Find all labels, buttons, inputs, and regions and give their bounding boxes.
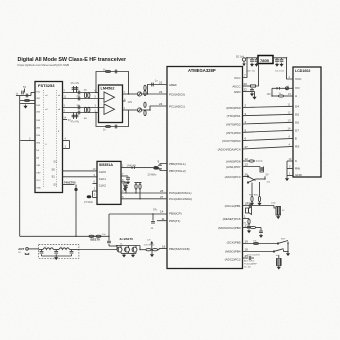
wire PB3 pin17 bbox=[243, 224, 264, 238]
crystal X1 20MHz bbox=[147, 164, 167, 177]
rotary encoder bbox=[243, 173, 271, 206]
wire PD1 to LCD D5 bbox=[243, 114, 294, 115]
op-amp U2A bbox=[104, 92, 115, 103]
wire AVCC pin20 inductor bbox=[243, 65, 259, 97]
IC U6 7805 regulator bbox=[258, 56, 273, 64]
wire PD3 to LCD D7 bbox=[243, 130, 294, 132]
capacitor on ICP bbox=[152, 214, 154, 221]
wire FST pin 2 row bbox=[20, 140, 35, 142]
key dit pin19 bbox=[243, 239, 289, 245]
crystal X2 27MHz bbox=[84, 186, 97, 204]
wire PD0 to LCD D4 bbox=[243, 106, 294, 107]
wire PD2 to LCD D6 bbox=[243, 122, 294, 124]
FST3253 right rows to LM4562 bbox=[63, 89, 105, 113]
power rail 12V input bbox=[236, 56, 246, 67]
wire 7805 out 5V bbox=[273, 58, 293, 79]
IC U5 LCD1602 bbox=[293, 67, 321, 177]
wire SI5351A CLK0 stub bbox=[93, 183, 98, 185]
IC U1 FST3253 bbox=[35, 82, 63, 193]
trimpot R gain A bbox=[137, 92, 141, 96]
junction dots bbox=[95, 92, 96, 93]
wire PB2 pin16 TX bbox=[144, 240, 168, 258]
wire PD7 audio out pin13 bbox=[243, 163, 264, 172]
wire I2C SCL to pin28 bbox=[121, 198, 167, 200]
wire U2A out pin7 bbox=[123, 93, 138, 95]
wire LCD A backlight resistor bbox=[267, 92, 294, 97]
capacitor C 47u+47u bottom bbox=[71, 113, 80, 124]
key dah pin18 bbox=[243, 244, 291, 257]
wire LPF to PA drain bbox=[79, 249, 117, 251]
wire U2B out pin1 bbox=[123, 109, 138, 111]
feedback loop bottom U2B bbox=[96, 110, 129, 132]
gate 74ACT00 bbox=[63, 184, 75, 186]
capacitor C out 7805 bbox=[275, 58, 285, 73]
wire PD6 sidetone pin12 bbox=[243, 157, 264, 162]
op-amp U2B bbox=[104, 104, 115, 115]
title bbox=[18, 57, 127, 67]
resistor pair B bbox=[144, 102, 146, 107]
dc in jack pin25 bbox=[243, 254, 282, 270]
wire GND pin22 bbox=[243, 88, 257, 100]
IC U3 SI5351A bbox=[97, 161, 121, 204]
pin 14 5V stub FST bbox=[63, 119, 68, 121]
wire to PC0 pin23 bbox=[148, 93, 168, 95]
resistor bias pair upper bbox=[84, 93, 86, 98]
wire VCC pin7 bbox=[243, 58, 248, 78]
RX input attenuator network bbox=[16, 85, 36, 102]
ground input network bbox=[23, 105, 27, 109]
capacitor C 47u+47u top bbox=[71, 82, 80, 93]
resistor pair A bbox=[144, 85, 146, 90]
capacitor I2C filter bbox=[122, 182, 128, 194]
antenna ANT bbox=[18, 247, 38, 255]
IC U4 ATMEGA328P bbox=[167, 67, 243, 269]
wire PC4 to LCD RS bbox=[243, 146, 294, 149]
trimpot R gain B bbox=[137, 108, 141, 112]
node left rail bbox=[19, 96, 21, 237]
wire PD5 T1 pin11 bbox=[157, 220, 167, 222]
feedback loop top U2A bbox=[96, 68, 129, 94]
wire to AREF pin21 bbox=[148, 85, 168, 95]
wire PB0 ICP pin14 bbox=[109, 213, 167, 215]
wire to PC1 pin24 bbox=[150, 106, 167, 110]
IC U2 LM4562 bbox=[99, 85, 123, 123]
wire LCD K RW GND bbox=[285, 157, 293, 181]
wire I2C SDA to pin27 bbox=[121, 192, 167, 194]
wire 12V to 7805 bbox=[246, 57, 258, 59]
pin 8 4 power labels U2 bbox=[123, 97, 133, 104]
capacitor row couplers bbox=[78, 91, 80, 95]
capacitor C in 7805 bbox=[246, 58, 259, 73]
transistor Q1 Q2 Q3 3x BS170 PA bbox=[89, 234, 146, 257]
wire PD4 to LCD E bbox=[243, 138, 294, 140]
low pass filter box bbox=[39, 245, 79, 260]
wire FST pin rows left bbox=[31, 92, 35, 94]
wire TX drive rail bbox=[20, 235, 109, 237]
resistor bias pair lower bbox=[84, 107, 86, 112]
SI5351A right pins bbox=[121, 164, 147, 191]
resistor I2C pullups bbox=[135, 183, 142, 200]
audio amp speaker pin15 bbox=[243, 202, 286, 220]
wire TX gate drive vertical bbox=[75, 185, 77, 237]
reset network pin1 bbox=[243, 215, 252, 234]
wire LCD VO contrast bbox=[272, 84, 293, 96]
FST bottom side stubs bbox=[63, 140, 70, 142]
